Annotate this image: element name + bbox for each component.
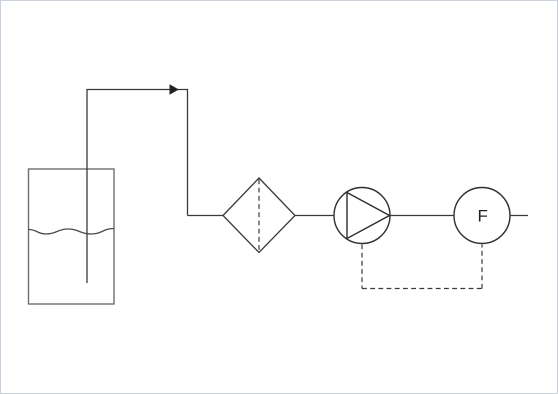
wire: filter to pump xyxy=(295,215,334,217)
flow meter FI (circle) xyxy=(454,188,510,244)
dashed signal: pump down xyxy=(361,245,363,289)
flow arrow xyxy=(170,84,179,94)
pump P1 impeller triangle xyxy=(347,193,390,239)
wire: vertical down to filter level xyxy=(187,89,189,216)
pump P1 (circle) xyxy=(334,188,390,244)
tank T1 xyxy=(29,169,115,304)
liquid level wave xyxy=(29,229,115,235)
filter F1 dashed element line xyxy=(258,180,260,252)
wire: flow meter outlet xyxy=(510,215,528,217)
dashed signal: horizontal run xyxy=(362,288,482,290)
wire: horizontal into filter xyxy=(188,215,224,217)
svg-text:F: F xyxy=(478,207,488,226)
dashed signal: up to flow meter xyxy=(481,245,483,289)
wire: top horizontal xyxy=(86,89,187,91)
wire: dip tube vertical xyxy=(86,90,88,284)
filter F1 (diamond) xyxy=(223,178,295,253)
wire: pump to flow meter xyxy=(390,215,454,217)
